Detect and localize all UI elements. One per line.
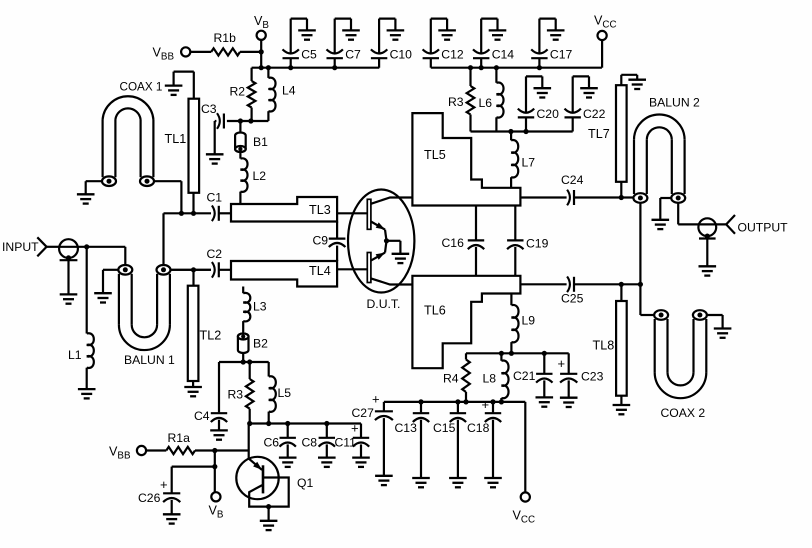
plus sign C11 [351,421,359,436]
svg-text:C10: C10 [390,48,413,62]
wire L3 to B2 [242,321,244,333]
wire C26 to ground [171,500,173,514]
svg-text:L9: L9 [522,314,536,328]
label C13 [395,421,418,435]
ground under L1 [78,389,96,398]
label TL5 [424,148,446,162]
wire B2 to junction [242,353,244,362]
wire B1 to L2 [239,152,241,159]
svg-text:TL6: TL6 [424,304,446,318]
wire C26 branch [172,467,215,493]
ground under C8 [318,458,336,467]
label C1 [207,191,223,205]
svg-text:R3: R3 [228,388,244,402]
ground under Q1 [260,521,278,530]
svg-text:C22: C22 [583,107,606,121]
svg-text:L6: L6 [479,96,493,110]
capacitor C10 [371,49,387,58]
wire C6 to ground [287,444,289,456]
inductor L5 [269,362,276,424]
inductor L2 [240,158,247,192]
wire VBB to R1a [146,449,166,451]
ground under C15 [449,478,467,487]
svg-text:C23: C23 [581,370,604,384]
wire TL4 to DUT base 2 [337,268,367,270]
svg-text:C6: C6 [264,436,280,450]
capacitor C16 [468,206,484,276]
output coax connector [698,218,716,236]
wire C8 to ground [326,444,328,456]
balun 2 tube [634,115,685,195]
wire coax 1 left to ground [86,181,103,193]
DUT transistor 1 collector [371,198,413,204]
ground under C11 [352,458,370,467]
plus sign C23 [558,356,566,371]
wire TL5 to C24 [520,196,566,198]
ground under input connector [60,294,78,303]
wire output shield to ground [706,239,708,266]
node C25 line at TL8 [619,282,624,287]
capacitor C19 [507,206,523,276]
ground under C26 [163,514,181,523]
label C6 [264,436,280,450]
svg-text:R1a: R1a [168,431,191,445]
input connector shield bar [60,259,78,261]
svg-text:C14: C14 [492,48,515,62]
label C10 [390,48,413,62]
wire upper VCC rail [466,352,569,354]
svg-text:TL7: TL7 [588,127,610,141]
wire VB rail [252,67,380,69]
svg-text:D.U.T.: D.U.T. [367,297,401,311]
ground bracket above C17 [539,19,564,54]
label L5 [278,386,292,400]
DUT transistor 2 emitter [371,241,387,261]
label C22 [583,107,606,121]
wire C5 to VB rail [290,58,292,67]
wire C2 to TL4 [219,269,231,271]
svg-text:COAX 1: COAX 1 [120,81,163,94]
plus sign C27 [372,392,380,407]
wire R3/L6 bottom line [471,130,573,132]
label C16 [442,236,465,250]
ground at TL7 top [628,80,646,89]
wire bias junction line [219,361,269,363]
svg-text:B1: B1 [253,135,268,149]
node input at L1 [84,244,89,249]
wire balun 2 left down to C25 line [639,203,641,285]
svg-text:C24: C24 [561,173,584,187]
svg-text:+: + [482,397,490,412]
ground under TL2 [184,387,202,396]
capacitor C5 [283,49,299,58]
coax 2 right end [693,310,707,320]
label TL8 [593,339,615,353]
transmission line TL4 [231,261,337,287]
plus sign C18 [482,397,490,412]
ground inside DUT [392,254,410,263]
svg-text:+: + [351,421,359,436]
ground at TL1 top [165,86,183,95]
wire L1 branch [86,247,88,334]
label C5 [301,48,317,62]
wire C24 to balun 2 [574,196,641,198]
wire R1a to Q1 [195,449,249,451]
ferrite bead B1 [235,121,246,152]
label C21 [513,369,536,383]
label OUTPUT [738,221,789,235]
transmission line TL8 [616,301,627,396]
transistor Q1 collector strap [249,478,289,507]
capacitor C21 [536,353,552,396]
capacitor C18 [485,402,501,477]
wire C1 line [164,212,212,214]
capacitor C23 [560,353,577,397]
wire VCC bottom rail [384,402,525,493]
coax 1 left end [102,176,116,186]
coax 1 right end [140,176,154,186]
label C4 [194,409,210,423]
node upper rail at C21 [542,351,547,356]
node C2 line at TL2 [191,267,196,272]
svg-text:+: + [160,477,168,492]
capacitor C22 [565,109,581,118]
balun 2 right end [671,193,685,203]
node VCC rail at L8 [499,399,504,404]
wire TL3 to DUT base 1 [337,212,367,214]
svg-text:TL2: TL2 [200,329,222,343]
label BALUN 2 [649,96,700,110]
svg-text:C19: C19 [526,237,549,251]
balun 1 right end [157,265,171,275]
resistor R1a [166,447,195,454]
label R3 (bottom) [228,388,244,402]
wire C2 line [170,269,211,271]
label TL2 [200,329,222,343]
wire C14 to VCC rail [480,58,482,67]
label L1 [68,348,82,362]
label VBB (top) [153,46,175,63]
DUT transistor 2 base bar [367,253,371,283]
wire input to connector [47,246,59,248]
wire TL2 top lead [192,270,194,286]
node VCC rail at L6 [494,65,499,70]
ground at balun 1 left [94,293,112,302]
balun 1 left end [118,265,132,275]
wire Q1 collector to bias rail [248,424,250,459]
label C27 [352,406,375,420]
ground under C6 [279,458,297,467]
svg-text:C9: C9 [313,234,329,248]
svg-text:L5: L5 [278,386,292,400]
svg-text:B2: B2 [253,337,268,351]
wire C4 to ground [218,420,220,430]
transmission line TL3 [231,197,337,222]
svg-text:+: + [558,356,566,371]
ground bracket above C14 [481,19,506,54]
label L8 [483,372,497,386]
node upper rail at L8 [499,351,504,356]
wire balun 2 right to output [678,203,727,225]
label C19 [526,237,549,251]
wire L1 to ground [86,368,88,389]
label BALUN 1 [124,353,175,367]
capacitor C25 [567,277,574,293]
coax 1 tube [103,96,154,177]
node bottom rail at B1 [238,118,243,123]
wire balun 1 left to ground stub [103,270,119,293]
node junction at B2 [241,359,246,364]
node VB rail at L4 [266,65,271,70]
svg-text:R2: R2 [230,85,246,99]
transistor Q1 emitter arrow [249,459,262,470]
svg-text:C2: C2 [207,247,223,261]
capacitor C13 [413,402,429,477]
node VCC rail at C15 [455,399,460,404]
label C23 [581,370,604,384]
svg-text:R4: R4 [443,372,459,386]
wire VBB to R1b [190,51,211,53]
wire C11 to ground [360,444,362,456]
inductor L4 [268,68,275,121]
ground bracket above C10 [379,19,404,54]
wire VB branch down [214,451,216,493]
svg-text:L1: L1 [68,348,82,362]
node VCC rail at C13 [418,399,423,404]
wire TL8 bottom lead [620,396,622,405]
resistor R1b [211,48,240,55]
node C1 line at TL1 [191,211,196,216]
wire R2/L4 bottom rail [227,120,269,122]
label C20 [537,107,560,121]
capacitor C24 [567,190,574,206]
ground under C18 [484,478,502,487]
ground under TL8 [613,405,631,414]
node C24 line at TL7 [619,195,624,200]
node VB rail at C5 [288,65,293,70]
wire balun 1 right to C2 line [170,269,211,271]
transmission line TL2 [188,286,199,381]
label D.U.T. [367,297,401,311]
label L7 [522,156,536,170]
terminal VB (top) [257,31,266,40]
wire C25 to corner [574,283,641,285]
label C24 [561,173,584,187]
node VB branch at C26 [212,464,217,469]
label COAX 1 [120,81,163,94]
wire corner down to coax 2 [640,284,654,315]
wire C12 to VCC rail [430,58,432,67]
wire balun 1 right up to C1 line [162,213,164,265]
label C9 [313,234,329,248]
wire L2 to TL3 [239,192,241,204]
wire DUT emitter to ground [387,241,401,253]
label VCC (top) [594,14,617,31]
wire R2 bottom [251,108,253,122]
svg-text:C27: C27 [352,406,375,420]
ground under C3 [206,154,224,163]
node VCC rail at R3 [468,65,473,70]
svg-text:C25: C25 [561,292,584,306]
svg-text:OUTPUT: OUTPUT [738,221,789,235]
node bias rail at C8 [324,421,329,426]
svg-text:R1b: R1b [214,31,237,45]
input coax connector [59,239,78,258]
capacitor C15 [450,402,466,477]
wire bias rail [250,422,361,424]
svg-text:L8: L8 [483,372,497,386]
node line at C20 [523,129,528,134]
wire C10 to VB rail [378,58,380,67]
resistor R3 (top) [467,86,475,115]
input connector shield dot [66,255,71,260]
node VCC rail at R4 [463,399,468,404]
capacitor C9 [329,239,346,247]
terminal VBB (bottom) [137,446,146,455]
output chevron [726,215,735,234]
capacitor C14 [473,49,489,58]
wire R3 bottom lead [469,115,471,132]
wire C3 to ground [215,121,217,154]
node VB rail at feed [259,65,264,70]
label C25 [561,292,584,306]
wire R3 top lead [469,68,471,86]
label R1b [214,31,237,45]
node VCC rail at C14 [479,65,484,70]
wire R1b to node [240,51,261,53]
label C7 [345,48,361,62]
node VB rail at C7 [332,65,337,70]
node Q1 ground strap [266,504,271,509]
ground bracket above C20 [526,76,551,113]
svg-text:R3: R3 [448,95,464,109]
label C12 [441,48,464,62]
terminal VBB (top) [181,47,190,56]
capacitor C3 [217,113,224,129]
label TL1 [165,132,187,146]
capacitor C20 [518,109,534,118]
terminal VB (bottom) [211,492,220,501]
terminal VCC (bottom) [521,492,530,501]
coax 2 left end [654,310,668,320]
node DUT common emitter [384,238,389,243]
label C26 [138,491,161,505]
DUT transistor 1 emitter [371,222,387,241]
label C3 [201,102,217,116]
label TL7 [588,127,610,141]
inductor L1 [87,333,94,368]
inductor L6 [496,68,503,132]
label TL4 [309,264,331,278]
svg-text:C20: C20 [537,107,560,121]
wire C20 to line [525,117,527,131]
capacitor C8 [319,438,335,447]
ground bracket above C22 [573,76,598,113]
transistor Q1 circle [236,457,278,499]
wire C17 to VCC rail [538,58,540,67]
wire TL6 to C25 [520,283,566,285]
transmission line TL1 [189,99,200,193]
label VCC (bottom) [513,509,536,526]
ground under C4 [210,430,228,439]
svg-text:TL1: TL1 [165,132,187,146]
label L3 [253,300,267,314]
label Q1 [297,476,313,490]
capacitor C6 [280,438,296,447]
wire TL1 bottom lead [192,193,194,214]
wire junction down to VB rail [260,52,262,68]
label C8 [302,436,318,450]
transistor Q1 base bar [262,465,265,493]
label L4 [282,84,296,98]
label L6 [479,96,493,110]
label R4 [443,372,459,386]
svg-text:C8: C8 [302,436,318,450]
ground bracket above C12 [431,19,456,54]
wire C4 branch [218,362,220,412]
wire VB terminal to junction [260,40,262,52]
svg-text:C17: C17 [550,48,573,62]
balun 2 left end [633,193,647,203]
wire C6 top lead [287,424,289,438]
node line at L7 [508,129,513,134]
node VB junction [259,49,264,54]
ground at coax 1 left [77,194,95,203]
resistor R4 [462,353,470,402]
wire R3 bottom to rail [249,409,251,424]
svg-text:C21: C21 [513,369,536,383]
ground under C27 [375,476,393,485]
terminal VCC (top) [598,31,607,40]
svg-text:C13: C13 [395,421,418,435]
label R2 [230,85,246,99]
label L9 [522,314,536,328]
label B2 [253,337,268,351]
wire TL1 top to ground [174,72,194,99]
svg-text:BALUN 1: BALUN 1 [124,353,175,367]
balun 1 tube [119,274,170,350]
svg-text:COAX 2: COAX 2 [661,406,706,420]
node bottom rail at R2 [248,118,253,123]
wire C11 top lead [360,424,362,438]
svg-text:C4: C4 [194,409,210,423]
capacitor C11 [353,438,369,447]
node bias rail at L5 [266,421,271,426]
svg-text:C16: C16 [442,236,465,250]
svg-text:C3: C3 [201,102,217,116]
ferrite bead B2 [238,334,249,354]
wire balun 2 right ground stub [660,198,672,219]
capacitor C26 [163,493,180,502]
node junction at R3 [247,359,252,364]
wire through input connector [59,246,125,248]
input chevron [37,237,46,256]
node bias rail at C6 [285,421,290,426]
node C25 line at balun/coax corner [638,282,643,287]
wire C8 top lead [326,424,328,438]
capacitor C27 [375,402,393,475]
svg-text:TL8: TL8 [593,339,615,353]
resistor R3 (bottom) [246,379,254,409]
label VB (top) [254,14,269,31]
ground bracket above C7 [335,19,360,54]
capacitor C1 [212,206,219,222]
inductor L9 [511,294,518,354]
transmission line TL7 [616,85,627,182]
ground at balun 2 stub [652,220,670,229]
wire TL7 top to ground [621,75,637,85]
plus sign C26 [160,477,168,492]
